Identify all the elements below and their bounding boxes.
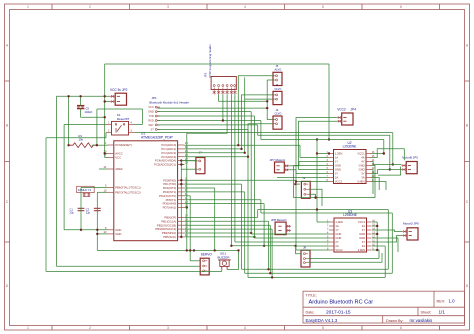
wire XTAL2 to crystal [97,191,107,193]
wire vertical 270.3 PB2 to rail2 [269,225,271,273]
junction at 97.3,229.8 [96,229,98,231]
wire MotorB pin2 row [378,169,402,171]
svg-text:Reset BT: Reset BT [117,117,130,121]
wire VCC rail A [57,95,111,97]
J7 pin 2 [199,168,201,170]
wire JP3 pin4 drop [187,95,227,134]
svg-text:GND: GND [359,232,365,236]
wire J4 pin1 feed [242,95,275,149]
wire bundle vertical 253.7 to U3 [253,116,255,238]
U1 pin 2 PD0(RXD) [178,179,185,181]
U1 pin 5 PD3(INT1) [178,191,185,193]
wire reset to K1 vertical [96,109,98,145]
header JP8 body [275,222,286,235]
wire VCC top rail [105,63,329,65]
wire wrap 3 from JP1 RXD [260,121,262,140]
wire C5 bottom lead [80,109,82,118]
svg-text:GND: GND [148,110,154,114]
svg-text:VCC 5v JP2: VCC 5v JP2 [110,88,128,92]
svg-text:JP1: JP1 [152,96,158,100]
wire bundle vertical PD3 to bottom rail 2 [244,192,246,273]
U2 pin 11 3Y [366,173,371,175]
buzzer SG1 body [218,259,231,261]
U1 pin 22 GND [108,233,114,235]
wire U3 GND13 join [372,233,377,235]
header J7 body [196,158,205,174]
junction at 244.7,152.8 [244,152,246,154]
svg-text:6: 6 [400,326,402,330]
MotorD JP6 pin 2 [402,235,407,237]
header J8 body [301,250,310,267]
wire wrap2 drop to MotorB pin2 row [389,135,391,169]
svg-text:PC5(ADC5)(SCL): PC5(ADC5)(SCL) [154,163,176,167]
header JP2 body [115,93,126,105]
U1 pin 11 PD5(T1) [178,199,185,201]
wire JP4 pin2 route [299,121,338,169]
JP3 pin 1 [213,85,215,87]
JP2 pin 1 [110,95,115,97]
wire PB0 row [184,216,257,218]
U1 pin 14 PB0(ICP) [178,216,185,218]
wire MotorD wrap1 right riser [387,210,389,270]
svg-text:4Y: 4Y [362,228,365,232]
svg-text:1,2EN: 1,2EN [335,220,343,224]
svg-text:PD7(AIN1): PD7(AIN1) [163,206,177,210]
U3 pin 16 VCC1 [367,221,372,223]
svg-text:1Y: 1Y [335,160,338,164]
J9 pin 1 [304,183,306,185]
wire JP3 pin6 drop [234,95,236,243]
U3 pin 5 GND [329,237,334,239]
wire bottom left rail to servo pin3/buzzer [46,270,222,272]
wire PB2 row [184,224,270,226]
JP7 pin 2 [284,169,289,171]
buzzer SG1 legs [221,267,223,270]
frame column ticks top [51,4,53,10]
J5 pin 2 [276,79,278,81]
U2 pin 8 VCC2 [329,181,334,183]
U2 pin 14 4Y [366,161,371,163]
wire U2 1Y feed [289,165,299,167]
svg-text:2017-01-15: 2017-01-15 [326,310,351,316]
wire C5 to vertical [81,116,105,118]
U3 pin 6 2Y [329,241,334,243]
wire J4 riser up link [244,77,246,99]
wire U2 3,4EN down [371,182,386,191]
wire wrap1 drop to MotorB pin1 row [392,133,394,165]
U1 pin 7 VCC [108,157,114,159]
wire bundle vertical 243.1 PD1 to bottom rail 1 [241,184,243,269]
wire U2 3Y to MotorB pin2 [371,170,378,174]
wire J9 vertical [294,180,296,184]
junction at 248.0,156.7 [247,156,249,158]
svg-text:4: 4 [244,326,246,330]
svg-text:MotorD JP6: MotorD JP6 [403,222,419,226]
U1 pin 12 PD6(AIN0) [178,203,185,205]
U1 pin 25 PC2(ADC2) [178,152,185,154]
wire MotorD wrap 1 from PB0 [257,210,259,218]
U3 pin 12 GND [367,237,372,239]
JP3 pin 2 [218,85,220,87]
wire AREF stub [99,168,108,170]
U1 pin 28 PC5(ADC5)(SCL) [178,164,185,166]
wire left long vertical from rail A [56,96,58,266]
wire JP3 pin5 drop [230,95,232,246]
U1 pin 23 PC0(ADC0) [178,144,185,146]
svg-text:1A: 1A [335,156,338,160]
wire VCC feed [105,157,108,159]
J4 pin 2 [276,98,278,100]
U3 pin 11 3Y [367,241,372,243]
wire XTAL1 to crystal [81,187,108,189]
U1 pin 19 PB5(SCK) [178,236,185,238]
wire K1 pin2 route [105,133,107,138]
J8 pin 1 [303,253,305,255]
wire to servo pin2 [57,265,201,267]
MotorD JP6 pin 1 [402,231,407,233]
capacitor C1 [78,207,85,209]
wire JP1 pin6 net [157,128,248,130]
wire PD1 row [184,183,241,185]
U3 pin 13 GND [367,233,372,235]
svg-text:J9: J9 [302,176,305,180]
U1 pin 17 PB3(MOSI/OC2) [178,228,185,230]
U2 pin 2 1A [329,157,334,159]
svg-text:EasyEDA V4.1.3: EasyEDA V4.1.3 [306,318,338,323]
J9 pin 3 [304,193,306,195]
wire J9 pin1 [295,183,300,185]
wire PC4 to J7 [184,160,197,162]
wire top rail right drop to wrap3 [328,64,330,140]
wire MotorD wrap2 right riser [391,213,393,273]
wire PC1 row [184,148,241,150]
junction at 104.7,101.5 [104,100,106,102]
wire PB3 row [184,228,272,230]
U1 pin 3 PD1(TXD) [178,183,185,185]
JP3 pin 4 [226,85,228,87]
svg-text:Sheet:: Sheet: [421,311,432,315]
U2 pin 16 VCC1 [366,153,371,155]
wire U2 3A down [371,178,379,191]
wire U3 3A to rail3 riser [372,245,385,247]
wire U2 GND4 feed [294,165,329,167]
wire U3 4Y to MotorD [372,230,402,232]
JP3 pin 3 [222,85,224,87]
wire JP1 pin5 net [157,124,257,126]
wire PC0 row [184,144,238,146]
svg-text:1,2EN: 1,2EN [335,152,343,156]
svg-text:PB6(XTAL1/TOSC1): PB6(XTAL1/TOSC1) [115,186,141,190]
wire J8 pin3 row [308,261,382,263]
wire U2 GND4 riser to GND trunk [293,166,295,198]
JP8 pin 1 [286,225,291,227]
svg-text:2Y: 2Y [335,172,338,176]
wire GND trunk below U2 [294,197,376,199]
junction at 97.3,233.9 [96,233,98,235]
svg-text:PB5(SCK): PB5(SCK) [163,235,176,239]
IC U3 L293DNE body [334,218,367,252]
wire MotorB wrap under [378,167,401,176]
wire PB1 row [184,220,268,222]
U3 pin 10 3A [367,245,372,247]
svg-text:2A: 2A [335,244,338,248]
U1 pin 18 PB4(MISO) [178,232,185,234]
svg-text:GND: GND [115,232,121,236]
header MotorB JP5 body [406,162,417,174]
svg-text:Date:: Date: [306,311,315,315]
wire U3 GND12 down [372,238,398,252]
svg-text:4Y: 4Y [361,160,364,164]
U3 pin 7 2A [329,245,334,247]
U3 pin 2 1A [329,225,334,227]
wire J9 pin3 to GND trunk [309,194,316,197]
wire U3 EN riser x317 [316,140,318,223]
U2 pin 15 4A [366,157,371,159]
title block outline [303,291,465,323]
U3 pin 4 GND [329,233,334,235]
wire PD2 row [184,187,214,189]
svg-text:ATMEGA328P_PDIP: ATMEGA328P_PDIP [141,136,174,140]
wire PD4 row [184,195,190,197]
svg-text:SERVO: SERVO [201,253,213,257]
SERVO pin 1 [203,260,205,262]
wire PB5 row [184,236,254,238]
junction at 104.7,153.5 [104,152,106,154]
wire bottom rail 3 [248,276,385,278]
svg-text:1/1: 1/1 [439,310,446,315]
svg-text:2: 2 [89,326,91,330]
wire bottom rail 2 [245,272,393,274]
U1 pin 1 PC6(RESET) [108,144,114,146]
wire wrap 2 from JP1 KEY [257,125,259,135]
capacitor C2 [94,207,101,209]
svg-text:CLVO: CLVO [275,111,282,115]
wire GND rail [64,229,107,231]
svg-text:3A: 3A [362,244,365,248]
svg-text:VCC2: VCC2 [337,108,346,112]
wire wrap3 drop to U2 VCC1 [383,140,385,154]
wire U1 pin22 GND [97,233,107,235]
svg-text:6: 6 [400,5,402,9]
U1 pin 27 PC4(ADC4/SDA) [178,160,185,162]
svg-text:TITLE:: TITLE: [306,293,317,297]
wire top rail left drop to JP2 [104,64,106,96]
U3 pin 1 1,2EN [329,221,334,223]
U2 pin 3 1Y [329,161,334,163]
U2 pin 4 GND [329,165,334,167]
switch K1 body [112,121,129,135]
header SERVO body [200,258,209,275]
J5 pin 1 [276,75,278,77]
wire U2 VCC1 [371,153,384,155]
junction at 80.6,96.3 [79,95,81,97]
U3 pin 8 VCC2 [329,249,334,251]
wire PD3 row [184,191,244,193]
JP8 pin 2 [286,229,291,231]
U1 pin 15 PB1(OC1A) [178,220,185,222]
svg-text:5: 5 [322,5,324,9]
wire U3 VCC1 riser [372,221,377,223]
svg-text:VCC1: VCC1 [358,220,366,224]
svg-text:ALVO: ALVO [275,68,282,72]
wire PC5 to J7 [181,164,184,166]
wire PC2 row [184,152,244,154]
header J4 body [273,91,282,104]
U1 pin 26 PC3(ADC3) [178,156,185,158]
frame row ticks left [5,80,10,82]
wire JP2 pin2 drop [104,96,106,157]
JP4 pin 1 [337,117,342,119]
U1 pin 6 PD4(XCK/T0) [178,195,185,197]
header J5 body [273,72,282,85]
junction at 96.9,145.2 [96,144,98,146]
MotorB JP5 pin 1 [402,165,407,167]
wire U2 1A feed [300,157,329,159]
resistor R1 body [70,143,96,148]
wire PD7 row [184,207,187,209]
svg-text:BUZZER: BUZZER [218,255,231,259]
header J3 body [273,116,282,129]
svg-text:RXD: RXD [148,119,154,123]
K1 pin 1 [105,123,112,125]
JP3 pin 5 [230,85,232,87]
crystal Y1 label box [77,186,95,192]
junction at 231.4,245.8 [230,245,232,247]
svg-text:REV:: REV: [437,300,446,304]
IC U2 L293DNE body [334,150,367,184]
wire JP1 pin3 net [157,115,254,117]
svg-text:2Y: 2Y [335,240,338,244]
wire U3 2Y feed [235,241,329,243]
U1 pin 24 PC1(ADC1) [178,148,185,150]
U1 pin 16 PB2(SS/OC1B) [178,224,185,226]
U1 pin 4 PD2(INT0) [178,187,185,189]
junction at 238.5,250.4 [237,249,239,251]
wire U2 GND5 feed from JP4 pin2 [299,169,329,171]
wire crystal left leg [80,188,82,230]
U1 pin 20 AVCC [108,153,114,155]
svg-text:Drawn By:: Drawn By: [386,319,404,323]
wire U3 3,4EN to J8 pin2 [372,250,379,258]
svg-text:AREF: AREF [115,167,123,171]
JP3 pin 6 [234,85,236,87]
frame row ticks right [465,80,470,82]
svg-text:5: 5 [322,326,324,330]
wire R1 to U1 reset pin [92,144,108,146]
wire JP1 pin1 net [157,107,267,109]
wire buzzer left leg join [221,270,223,272]
wire K1 pin4 top route [97,108,143,110]
wire JP3 pin3 drop [222,95,224,121]
wire U2 GND13 down [371,166,375,198]
wire PD5 row [184,199,261,201]
svg-text:PC6(RESET): PC6(RESET) [115,143,132,147]
wire U3 4A join [372,225,377,227]
wire PC3 row [184,156,248,158]
wire U2 GND12 down [371,170,373,195]
wire J7 pin2 link [181,168,197,170]
JP4 pin 2 [337,120,342,122]
junction at 194,250.4 [193,249,195,251]
wire U2 4Y to MotorB pin1 [371,162,373,165]
JP2 pin 2 [110,101,115,103]
JP7 pin 1 [284,165,289,167]
header J9 body [301,181,310,198]
wire vertical 267.2 J5-J3 net [266,80,268,120]
wire buzzer right leg to vertical [227,269,238,271]
wire J5 pin1 feed [238,76,274,145]
frame column ticks bottom [51,326,53,331]
J3 pin 2 [276,123,278,125]
svg-text:mr.vasilakis: mr.vasilakis [410,318,433,323]
U2 pin 5 GND [329,169,334,171]
wire bundle vertical 264.5 PD6 to J8 [263,204,265,246]
svg-text:3Y: 3Y [361,172,364,176]
U3 pin 15 4A [367,225,372,227]
svg-text:GND: GND [359,164,365,168]
K1 pin 4 [129,123,135,125]
svg-text:L293DNE: L293DNE [343,213,357,217]
wire JP3 pin2 drop [219,95,268,102]
svg-text:ICSP programming header: ICSP programming header [208,44,212,77]
svg-text:PB7(XTAL2/TOSC2): PB7(XTAL2/TOSC2) [115,190,141,194]
U2 pin 1 1,2EN [329,153,334,155]
wire J3 pin2 feed [248,124,274,157]
U1 pin 21 AREF [108,168,114,170]
svg-text:4: 4 [244,5,246,9]
svg-text:TXD: TXD [149,114,154,118]
U2 pin 10 3A [366,177,371,179]
wire bundle vertical JP1 ST to bottom rail 3 [247,129,249,277]
U3 pin 9 3,4EN [367,249,372,251]
K1 switch contacts [115,124,117,126]
wire wrap 1 from K1 pin3 [134,132,392,134]
wire U3 2A feed from J8 net [296,245,329,247]
J8 pin 2 [303,258,305,260]
capacitor C5 [77,105,84,107]
wire U3 3Y to MotorD [372,236,402,243]
U2 pin 7 2A [329,177,334,179]
wire J8 feed 1 [231,246,301,254]
svg-text:4A: 4A [361,156,364,160]
crystal Y1 symbol [84,193,86,197]
header MotorD JP6 body [407,228,418,240]
svg-text:3: 3 [167,326,169,330]
svg-text:GND: GND [335,232,341,236]
svg-text:GND: GND [335,236,341,240]
svg-text:JP4: JP4 [351,108,357,112]
wire left outer vertical [45,138,47,272]
junction at 68.6,96.3 [67,95,69,97]
header JP4 body [342,113,353,125]
wire GND down rail to servo/buzzer [97,249,238,251]
svg-text:22p: 22p [86,211,91,215]
wire K1 pin1 to GND vertical [64,123,104,125]
svg-text:VCC: VCC [115,156,121,160]
svg-text:2A: 2A [335,176,338,180]
U2 pin 12 GND [366,169,371,171]
svg-text:L293DNE: L293DNE [343,145,357,149]
header JP3 body [211,77,236,90]
wire R1 pullup from rail A [68,96,70,145]
MotorB JP5 pin 2 [402,169,407,171]
junction at 104.7,96.3 [104,95,106,97]
svg-text:16MHz Y1: 16MHz Y1 [78,188,91,192]
svg-text:3,4EN: 3,4EN [357,180,365,184]
wire J3 pin1 feed [267,119,274,121]
wire bundle vertical 249.8 JP1 GND to U3 [250,112,252,234]
IC U1 ATMEGA328P_PDIP body [114,141,178,241]
